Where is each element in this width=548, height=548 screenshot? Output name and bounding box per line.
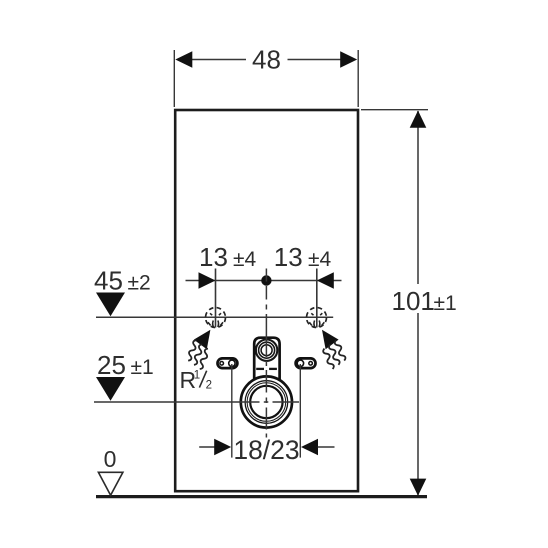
level 0 open triangle marker <box>98 472 123 495</box>
svg-text:±4: ±4 <box>308 248 332 271</box>
level 45 solid triangle marker <box>96 293 125 317</box>
dimension 18/23: right tail line <box>318 446 335 448</box>
pill right large hole <box>297 360 303 366</box>
pill left small hole <box>220 362 224 366</box>
dimension 101: bottom arrowhead <box>410 479 427 496</box>
dimension 18/23: right arrowhead pointing left <box>301 439 318 456</box>
wall anchor dashed circle right <box>307 308 327 328</box>
svg-text:±2: ±2 <box>128 272 151 295</box>
wall anchor right inner hatch <box>309 313 324 327</box>
drain pipe ring 2 <box>245 381 288 424</box>
floor line <box>96 495 427 498</box>
dimension 101: vertical line lower segment <box>417 313 419 495</box>
svg-text:18/23: 18/23 <box>233 435 299 465</box>
svg-text:45: 45 <box>94 266 123 296</box>
anchor pointer arrow left (up-right) <box>194 330 211 350</box>
bolt extension line right <box>316 269 318 328</box>
svg-text:±4: ±4 <box>233 248 257 271</box>
mounting bracket pill right <box>296 358 316 368</box>
drain pipe outer ring <box>241 376 292 427</box>
dimension 18/23: left tail line <box>199 446 215 448</box>
dimension 48: left arrowhead <box>175 51 192 68</box>
pill left large hole <box>229 360 235 366</box>
heat squiggles right <box>322 339 346 369</box>
svg-text:2: 2 <box>206 379 212 391</box>
dimension 48: line left segment <box>190 59 246 61</box>
dimension 48: left extension line <box>173 50 175 107</box>
water supply flange body (open rounded rect) <box>254 338 279 381</box>
dimension 13: horizontal line <box>186 280 342 282</box>
svg-text:13: 13 <box>199 242 228 272</box>
wall anchor left inner hatch <box>208 313 223 327</box>
dimension 48: right arrowhead <box>340 51 357 68</box>
svg-text:25: 25 <box>97 350 126 380</box>
dimension 101: top arrowhead <box>410 111 427 128</box>
svg-text:101: 101 <box>392 286 435 316</box>
dimension 48: line right segment <box>288 59 344 61</box>
R 1/2 label: fraction slash <box>199 371 206 388</box>
anchor pointer arrow right (up-left) <box>322 330 339 350</box>
svg-text:1: 1 <box>194 369 200 381</box>
water supply rings <box>256 340 277 361</box>
panel outline (sanitary module front view) <box>175 110 358 491</box>
dimension 13: center reference dot <box>261 275 271 285</box>
pill right small hole <box>309 362 313 366</box>
level 45 reference line <box>96 316 333 318</box>
dimension 101: top extension line <box>361 109 428 111</box>
svg-text:±1: ±1 <box>434 292 457 315</box>
level 25 reference line (through drain centre) <box>94 401 238 403</box>
drain pipe inner ring <box>250 386 282 418</box>
dimension 13: left arrowhead pointing right <box>199 272 216 289</box>
svg-text:0: 0 <box>104 446 117 472</box>
svg-text:13: 13 <box>274 242 303 272</box>
bolt extension line left <box>215 269 217 328</box>
flange lower tick marks <box>256 368 264 370</box>
vertical centreline through flange and drain (dash-dot) <box>265 269 267 438</box>
mounting bracket pill left <box>218 358 238 368</box>
extension line from left pill hole <box>231 364 233 458</box>
dimension 48: right extension line <box>357 50 359 107</box>
dimension 101: vertical line upper segment <box>417 111 419 284</box>
level 25 solid triangle marker <box>96 377 125 401</box>
drain pipe ring 3 <box>247 383 286 422</box>
heat squiggles left <box>186 339 210 369</box>
wall anchor dashed circle left <box>206 308 226 328</box>
svg-text:±1: ±1 <box>131 356 154 379</box>
dimension 18/23: left arrowhead pointing right <box>214 439 231 456</box>
svg-text:48: 48 <box>252 45 281 75</box>
drain horizontal centreline (dash-dot over rings) <box>238 401 299 403</box>
dimension 13: right arrowhead pointing left <box>317 272 334 289</box>
extension line from right pill hole <box>299 364 301 458</box>
